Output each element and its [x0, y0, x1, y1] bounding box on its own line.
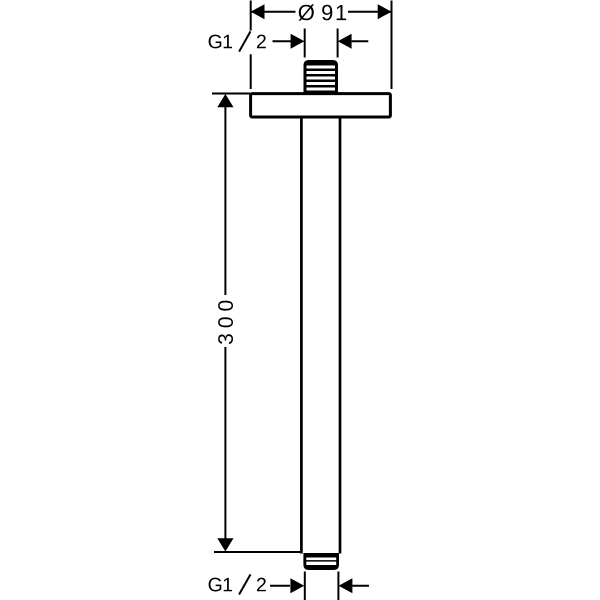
extension line bottom of 300 dim: [214, 551, 300, 553]
pipe wall right: [339, 117, 342, 554]
label 300 rotated: [218, 301, 233, 344]
top threaded stud: [304, 60, 339, 94]
extension line left of dia91 upper segment: [250, 1, 252, 31]
arrowhead top G1/2 pointing left: [338, 34, 352, 49]
leader line top G1/2: [273, 40, 292, 42]
arrowhead top G1/2 pointing right: [291, 34, 305, 49]
pipe wall left: [300, 117, 303, 554]
slash of top G1/2: [239, 31, 250, 51]
extension line left of bottom G1/2: [304, 572, 306, 600]
arrowhead dia91 right: [378, 4, 392, 19]
dim line 300 lower segment: [224, 347, 226, 550]
bottom threaded end: [303, 553, 339, 570]
extension line top of 300 dim: [212, 93, 250, 95]
extension line right of dia91: [391, 1, 393, 90]
slash of bottom G1/2: [239, 574, 250, 594]
arrowhead bottom G1/2 pointing left: [339, 578, 353, 593]
leader line bottom G1/2: [270, 585, 290, 587]
line right of bottom G1/2 arrow: [352, 585, 369, 587]
arrowhead dia91 left: [251, 4, 265, 19]
label dia 91: [299, 4, 347, 20]
extension line left of dia91 lower segment: [250, 54, 252, 89]
line right of top G1/2 arrow: [352, 40, 369, 42]
label bottom G1/2: [209, 578, 266, 592]
dim line 300 upper segment: [224, 96, 226, 295]
arrowhead 300 down: [217, 538, 233, 551]
label top G1/2: [209, 35, 266, 49]
extension line right of bottom G1/2: [337, 572, 339, 600]
dim line dia91 left segment: [251, 11, 296, 13]
ceiling flange plate: [251, 94, 391, 117]
arrowhead bottom G1/2 pointing right: [290, 578, 304, 593]
dim line dia91 right segment: [348, 11, 391, 13]
arrowhead 300 up: [217, 94, 233, 107]
extension line right of top G1/2: [337, 29, 339, 58]
extension line left of top G1/2: [304, 29, 306, 58]
